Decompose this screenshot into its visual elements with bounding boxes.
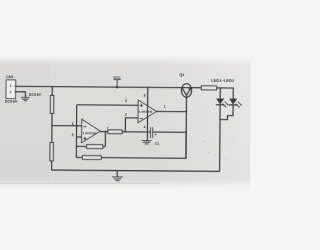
resistor R5 — [82, 155, 101, 159]
node junction — [147, 86, 149, 88]
svg-text:C1: C1 — [155, 142, 159, 146]
svg-text:LM358: LM358 — [83, 131, 96, 135]
op-amp U1B — [138, 100, 157, 123]
wire U1A output — [100, 131, 108, 133]
svg-text:1: 1 — [164, 105, 166, 109]
svg-text:LED1~LED2: LED1~LED2 — [211, 79, 234, 83]
wire U1B output — [156, 110, 186, 112]
transistor Q1 — [181, 84, 191, 98]
node output junction — [104, 131, 106, 133]
wire feedback vertical — [104, 132, 106, 147]
svg-text:LM358: LM358 — [139, 110, 152, 114]
node junction — [185, 111, 187, 113]
wire Q1 base lead down — [185, 97, 188, 158]
ground — [142, 141, 152, 144]
wire outer bottom loop — [52, 170, 220, 171]
wire U1B pin2 branch — [125, 118, 138, 132]
speck — [208, 152, 209, 153]
wire R3 to node — [122, 131, 150, 133]
wire LED return down — [219, 105, 222, 171]
wire left vertical net — [75, 105, 77, 158]
svg-text:DC9-6V: DC9-6V — [5, 99, 18, 103]
wire VCC top rail — [16, 86, 191, 87]
resistor R2 — [50, 142, 54, 161]
wire U1A plus input — [76, 136, 81, 138]
wire Q1 to R6 — [192, 87, 202, 89]
svg-text:6: 6 — [72, 122, 74, 126]
LED LED1 — [216, 98, 229, 107]
connector CN1 — [6, 80, 17, 99]
node VCC — [113, 76, 121, 89]
svg-text:CN1: CN1 — [6, 75, 13, 79]
svg-text:2: 2 — [9, 90, 11, 94]
wire node to U1A pin6 — [52, 125, 82, 127]
svg-text:5: 5 — [72, 133, 74, 137]
capacitor C1 — [150, 127, 157, 138]
wire ground stub bottom — [116, 171, 118, 177]
op-amp U1A — [82, 119, 101, 143]
wire R2 top — [51, 126, 53, 143]
svg-text:Q1: Q1 — [179, 73, 184, 77]
resistor R4 — [87, 144, 103, 148]
wire pin2 to ground — [16, 92, 25, 97]
svg-text:DC9-6V: DC9-6V — [29, 93, 42, 97]
svg-text:8: 8 — [144, 94, 146, 98]
wire R2 bottom to outer loop — [51, 161, 53, 170]
speck — [225, 158, 226, 159]
svg-text:4: 4 — [144, 125, 146, 129]
resistor R3 — [108, 130, 122, 134]
svg-text:1: 1 — [10, 84, 12, 88]
wire R1 to node — [51, 113, 53, 125]
wire lower row — [76, 156, 186, 159]
node junction — [185, 131, 187, 133]
wire power vertical to ground — [146, 87, 148, 140]
wire LED1 anode stub — [219, 88, 221, 99]
node junction — [219, 87, 221, 89]
speck — [204, 141, 205, 142]
LED LED2 — [229, 99, 242, 108]
paper background — [0, 0, 250, 250]
node divider junction — [51, 125, 53, 127]
wire feedback row — [76, 145, 105, 147]
ground — [112, 177, 123, 181]
wire LED cathodes bridge — [220, 105, 233, 120]
ground — [21, 97, 30, 100]
wire R6 to LEDs — [217, 88, 234, 99]
svg-text:3: 3 — [125, 99, 127, 103]
scanned gray band — [0, 54, 250, 188]
wire top link to U1B pin3 — [77, 104, 138, 106]
node junction — [124, 131, 126, 133]
wire rail to R1 — [51, 87, 53, 96]
wire inner vertical corner — [185, 132, 187, 158]
resistor R1 — [50, 95, 54, 113]
node junction at R1 top — [51, 86, 53, 88]
resistor R6 — [201, 86, 217, 90]
wire cap to Q1 lead — [153, 131, 186, 133]
svg-text:2: 2 — [125, 112, 127, 116]
